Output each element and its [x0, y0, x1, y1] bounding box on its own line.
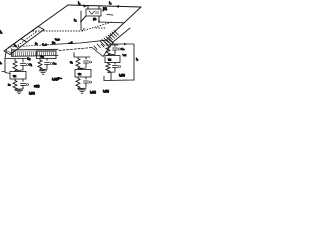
- wire ladder-d bottom rail: [104, 79, 134, 82]
- svg-text:I₄(ω): I₄(ω): [119, 73, 125, 77]
- dotted line near corner: [96, 27, 106, 29]
- node arrowhead I2 on top edge: [83, 4, 87, 7]
- node feed junction: [98, 21, 100, 23]
- capacitor C2b: [84, 81, 89, 87]
- wire ladder-a lower leads: [15, 79, 23, 82]
- wire top edge of plate: [68, 5, 141, 7]
- node C2 plus: [90, 61, 92, 63]
- svg-text:I₂(ω): I₂(ω): [90, 90, 96, 94]
- wire right edge of plate: [110, 7, 141, 36]
- resistor R3: [38, 60, 42, 70]
- wire ladder-d bottom join: [108, 72, 115, 80]
- svg-text:C₊: C₊: [53, 62, 57, 66]
- microstrip strip inner hatch: [8, 46, 19, 53]
- wire front face band outline: [12, 49, 59, 56]
- wire front face hatching: [13, 50, 56, 56]
- wire ladder-c mid join: [78, 68, 86, 70]
- node C3 plus: [51, 63, 53, 65]
- svg-text:ʀₐ: ʀₐ: [8, 83, 12, 87]
- resistor R4b: [106, 64, 110, 73]
- wire ladder-d mid join: [108, 54, 115, 55]
- dotted line parallel to strip: [16, 32, 36, 47]
- node C4b plus: [119, 66, 121, 68]
- resistor R1b: [13, 81, 17, 91]
- ground ladder-b: [40, 71, 47, 74]
- wire right slab corner hatching: [94, 31, 119, 50]
- wire ladder-a top rail: [5, 59, 26, 63]
- node C2b plus: [90, 81, 92, 83]
- wire ladder-b top leads: [40, 59, 47, 61]
- component box inner marks: [89, 11, 98, 14]
- component box R12: [37, 51, 57, 59]
- wire corner to right rail: [112, 44, 134, 80]
- component box Zr2: [75, 70, 91, 78]
- wire ladder-a bottom join: [15, 89, 23, 90]
- wire ladder-c lower leads: [78, 77, 86, 79]
- ground ladder-c: [79, 90, 86, 93]
- node C1b plus: [27, 84, 29, 86]
- svg-text:S₁: S₁: [35, 43, 38, 46]
- capacitor C2: [84, 61, 89, 67]
- wire feed drop vertical: [80, 11, 82, 30]
- svg-text:ᴡɹ: ᴡɹ: [78, 72, 81, 76]
- wire box bottom lead: [98, 16, 100, 21]
- capacitor C1: [21, 64, 26, 70]
- resistor R2: [76, 59, 80, 69]
- svg-text:ɴ(ω): ɴ(ω): [34, 84, 40, 88]
- svg-text:b₁: b₁: [74, 18, 76, 22]
- wire feed to right edge: [99, 21, 124, 24]
- capacitor C4: [113, 48, 118, 54]
- svg-text:ɴ₂: ɴ₂: [70, 60, 73, 64]
- wire ladder-a mid join: [15, 70, 23, 72]
- resistor R4: [106, 46, 110, 55]
- svg-text:I₁(ω): I₁(ω): [29, 91, 35, 95]
- resistor R2b: [76, 79, 80, 89]
- wire right slab face edge: [92, 42, 113, 57]
- wire ladder-d lower leads: [108, 63, 115, 65]
- svg-text:C₊: C₊: [121, 47, 125, 51]
- wire bottom edge of top face: [10, 45, 50, 48]
- wire ladder-a corner lead: [2, 50, 10, 74]
- svg-text:↘ɴ: ↘ɴ: [122, 53, 127, 57]
- svg-text:C₁₂: C₁₂: [27, 58, 31, 61]
- svg-text:jXɩ: jXɩ: [102, 7, 107, 11]
- component box Zr1: [10, 72, 26, 80]
- microstrip strip on left edge: [4, 27, 44, 55]
- node C4 plus: [119, 48, 121, 50]
- capacitor C1b: [21, 84, 26, 89]
- wire ladder-b join: [40, 69, 47, 70]
- svg-text:I₅(ω): I₅(ω): [103, 89, 109, 93]
- svg-text:I₂: I₂: [78, 1, 81, 5]
- resistor R1: [13, 61, 17, 71]
- dotted line toward right corner: [82, 22, 112, 31]
- component box jXf: [86, 9, 101, 16]
- wire right slab corner outer edge: [113, 28, 130, 42]
- svg-text:I₅: I₅: [109, 1, 112, 5]
- wire ladder-c bottom join: [78, 88, 86, 89]
- svg-text:I₆: I₆: [136, 57, 139, 61]
- wire ladder-c feed: [74, 53, 90, 60]
- svg-text:ɣ→: ɣ→: [58, 76, 63, 80]
- svg-text:ʙ₆₁₁ₐ: ʙ₆₁₁ₐ: [55, 38, 60, 41]
- svg-text:ψ₁₁: ψ₁₁: [52, 42, 56, 45]
- wire ladder-d top rail: [106, 43, 118, 47]
- node arrowhead on corner wire: [124, 43, 127, 46]
- svg-text:C₁: C₁: [29, 63, 32, 67]
- component box Zr3: [105, 56, 120, 63]
- node arrowhead I5 on top edge: [116, 5, 120, 8]
- svg-text:ᴡɹ: ᴡɹ: [108, 58, 111, 62]
- svg-text:ᴡɹ: ᴡɹ: [13, 74, 16, 78]
- node C1 plus: [27, 64, 29, 66]
- wire left edge of plate: [8, 5, 68, 48]
- svg-text:C₊⊕: C₊⊕: [42, 44, 47, 47]
- svg-text:I₁: I₁: [0, 30, 3, 34]
- svg-text:ɸb: ɸb: [93, 17, 97, 21]
- ground ladder-a: [16, 90, 23, 93]
- capacitor C4b: [113, 66, 118, 72]
- dotted line on plate surface horizontal: [33, 30, 82, 32]
- capacitor C3: [45, 63, 50, 69]
- wire small arrow right: [107, 14, 113, 17]
- wire box top leads: [88, 6, 99, 9]
- wire dashed front bottom edge continuation: [59, 48, 92, 51]
- svg-text:Iₐ: Iₐ: [0, 61, 3, 65]
- wire box diagonal lead: [81, 16, 87, 22]
- node dotted junction tick: [82, 28, 84, 31]
